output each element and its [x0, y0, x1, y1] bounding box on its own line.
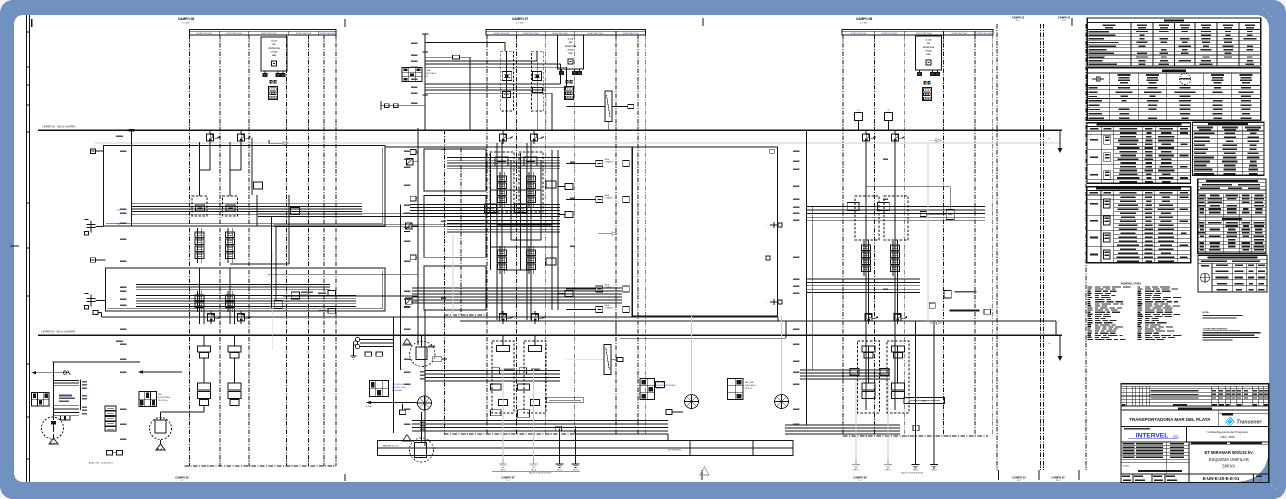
bus line y321	[460, 320, 1056, 322]
top-left margin tick	[31, 19, 33, 27]
wire	[96, 300, 106, 302]
line trap tall rect campo08/right	[0, 0, 1, 1]
aux box stack campo06 c1	[198, 383, 211, 406]
junction box campo08 bottom	[913, 425, 919, 431]
control panel U1 campo 06	[261, 37, 287, 77]
junction cluster box a	[291, 292, 313, 300]
bundle labels campo06 lower	[120, 287, 123, 301]
terminal block stack campo 07	[564, 81, 573, 100]
legend NOMENCLATURA	[1088, 282, 1182, 340]
aux box stack campo06 c2	[228, 383, 241, 406]
line trap tall rect lower	[604, 345, 611, 375]
future bus faint line	[95, 142, 1060, 144]
svg-text:+ PCyM =: + PCyM =	[567, 50, 575, 52]
dashed enclosure campo08 bot c2	[887, 341, 909, 413]
interface boxes campo07 left col	[558, 184, 573, 297]
terminal strip campo06 left	[105, 406, 116, 431]
svg-text:38V- 110Vcc: 38V- 110Vcc	[158, 400, 168, 402]
svg-text:Unidad Ejecutora del Programa: Unidad Ejecutora del Programa	[1207, 430, 1248, 434]
svg-text:503-BT1 REL.PCyM: 503-BT1 REL.PCyM	[226, 33, 242, 35]
bottom edge fold tick	[344, 474, 346, 481]
bus line y338	[620, 337, 786, 339]
footer separator tick	[1038, 470, 1040, 480]
line trap tall rect upper	[605, 91, 612, 122]
svg-text:503-BT1 REL.PCyM: 503-BT1 REL.PCyM	[916, 33, 932, 35]
svg-text:A TSA1: A TSA1	[366, 405, 372, 408]
table T6 current transformers B	[1087, 187, 1191, 263]
mimic panel campo07	[370, 381, 389, 397]
svg-text:503-BT1 REL.PCyM: 503-BT1 REL.PCyM	[882, 33, 898, 35]
breaker dashed enclosure campo08 c1	[855, 196, 879, 240]
disconnector 89-2 campo08 bus1	[891, 131, 904, 144]
gray future riser campo08	[928, 139, 942, 325]
line terminal A1	[91, 149, 96, 154]
svg-text:CAMPO 06: CAMPO 06	[175, 475, 189, 479]
svg-text:PROTECCION: PROTECCION	[565, 46, 577, 48]
interface relay box 3b	[566, 286, 629, 292]
busbar 1 end arrow	[1048, 130, 1063, 153]
campo 02 header label	[1058, 16, 1071, 22]
wire number labels campo06 left	[120, 150, 127, 440]
svg-text:503-BT1 REL.PCyM: 503-BT1 REL.PCyM	[623, 33, 639, 35]
bushing on R3 right edge lower	[766, 299, 782, 305]
svg-text:520: 520	[117, 210, 120, 212]
inter-bay wires 06-07 b	[274, 224, 560, 227]
disconnector 89-1 campo06 bus2	[207, 311, 220, 324]
wire campo07 top y90	[425, 90, 546, 130]
station transformer T1 campo06	[150, 412, 172, 440]
control panel U2 campo 07	[558, 35, 584, 75]
CT chain campo08 col2	[891, 241, 900, 276]
svg-text:CAJA: CAJA	[425, 69, 431, 72]
table T7 power transformer data	[1198, 255, 1267, 292]
box campo08 far r	[929, 291, 990, 315]
wire campo07 top y61	[425, 51, 537, 61]
wire campo07 top y57	[425, 57, 470, 130]
TSA1 kiosk grid	[32, 393, 50, 406]
svg-text:XXXX: XXXX	[922, 401, 928, 403]
svg-text:(FUT.): (FUT.)	[1062, 20, 1067, 22]
bus tie line y147	[385, 146, 632, 148]
aux box campo07 s1	[410, 149, 418, 154]
aux box pair campo08 b1	[862, 346, 875, 358]
interface relay box 1a	[596, 158, 614, 167]
svg-text:503-BT1 REL.PCyM: 503-BT1 REL.PCyM	[320, 33, 336, 35]
drop box on arrow line	[400, 404, 406, 415]
wire campo08 cross links	[866, 187, 950, 214]
wire riser x131	[131, 130, 133, 226]
disconnector 89-2 campo06 bus1	[237, 131, 250, 144]
svg-text:503-BT1 REL.PCyM: 503-BT1 REL.PCyM	[494, 33, 510, 35]
T2 ref label	[428, 346, 435, 348]
wire campo08 chain verticals	[869, 240, 898, 383]
campo 08 boundary dash-dot lines	[843, 35, 993, 436]
svg-text:S.R.L.: S.R.L.	[1173, 436, 1180, 439]
label A-reserva campo08	[949, 291, 979, 311]
footer separator tick	[701, 470, 703, 480]
aux box campo07 s2	[410, 196, 418, 201]
cable duct long rectangle	[378, 441, 793, 456]
breaker 52-1 dashed enclosure campo06	[192, 196, 207, 216]
wire bundle campo07 below	[425, 371, 560, 382]
svg-text:+ PCyM =: + PCyM =	[925, 51, 933, 53]
wire drop campo07 bot c1	[502, 335, 504, 345]
svg-text:CAMPO 08: CAMPO 08	[856, 17, 873, 21]
battery duct thin rect	[904, 397, 944, 403]
gray wire risers center	[452, 235, 454, 317]
svg-text:EN RESERVA: EN RESERVA	[668, 449, 681, 452]
wire riser campo06 low x230	[229, 268, 231, 324]
coupling capacitor CVT1	[85, 220, 96, 236]
svg-text:380/220V - 50Hz: 380/220V - 50Hz	[392, 387, 406, 389]
kiosk label campo07 top	[425, 69, 437, 78]
busbar 2 (500 kV bus II)	[38, 334, 1062, 336]
svg-text:+ PCyM =: + PCyM =	[270, 52, 278, 54]
T2 tap box	[433, 357, 447, 362]
svg-text:COMANDO: COMANDO	[605, 160, 614, 163]
mimic panel SSAA right	[728, 379, 744, 400]
bus2 connector jogs	[616, 317, 1056, 338]
feeder line campo07 top	[422, 34, 428, 130]
wires campo06 bottom	[161, 335, 235, 412]
campo 07 header band	[486, 17, 645, 35]
disconnector 89-1 campo08 bus1	[862, 131, 875, 144]
mimic panel label campo06	[158, 393, 170, 402]
box campo08 right r1	[946, 209, 954, 219]
chain campo07 col1 lower	[498, 246, 507, 274]
wire bundle campo08 below	[800, 370, 890, 379]
wire bundle campo06 lower b	[136, 296, 356, 307]
grounds campo08	[852, 459, 938, 468]
interface relay box 2b	[566, 197, 629, 203]
aux box stack campo08 c2	[880, 369, 905, 399]
wire bundle campo06 upper	[132, 204, 363, 214]
arrow line campo06	[138, 370, 182, 374]
wire riser campo08 x812	[811, 206, 813, 370]
svg-text:503-BT1 REL.PCyM: 503-BT1 REL.PCyM	[261, 33, 277, 35]
marshalling kiosk campo07 top	[402, 68, 422, 82]
CT chain campo06 col2	[226, 228, 235, 263]
footer label CAMPO 08	[853, 475, 867, 482]
busbar 1 (500 kV bus I)	[38, 129, 1062, 131]
terminal block stack campo 08	[922, 82, 931, 101]
station transformer T3 campo07 bottom	[410, 412, 434, 462]
interface relay box 4a	[596, 304, 614, 313]
arrow stub campo06	[269, 140, 288, 145]
svg-text:INTERVEL: INTERVEL	[1136, 432, 1169, 439]
label SSAA right	[745, 381, 756, 390]
svg-text:OEP - BAP: OEP - BAP	[1220, 435, 1234, 439]
table T2 symbols	[1087, 68, 1261, 120]
chain campo07 col2 lower	[527, 246, 536, 274]
delta symbol campo07 lower	[700, 467, 709, 475]
svg-text:ESQUEMA UNIFILAR: ESQUEMA UNIFILAR	[1209, 457, 1249, 462]
wire riser campo06 x199	[199, 142, 201, 196]
svg-text:U.C.B: U.C.B	[568, 39, 574, 41]
mimic panel label campo07	[392, 383, 407, 392]
svg-text:U.C.B: U.C.B	[926, 40, 932, 42]
svg-text:NOMENCLATURA: NOMENCLATURA	[1121, 282, 1142, 285]
svg-text:ESQUEMA 1: ESQUEMA 1	[392, 389, 402, 392]
table T1 equipment characteristics	[1087, 18, 1261, 66]
G1 feeder	[666, 316, 692, 415]
disconnector campo08 bus2 a	[865, 311, 878, 324]
campo 02 boundary dash-dot lines	[1044, 24, 1087, 470]
feeder line campo07 lower	[424, 310, 426, 446]
gray future wires campo07	[503, 369, 534, 459]
interface relay box 3a	[596, 284, 614, 293]
junction cluster box c	[318, 291, 336, 296]
wire campo07 top y84	[425, 64, 560, 84]
disconnector 89-1 campo07 bus1	[499, 131, 512, 144]
busbar 2 end arrow	[1048, 335, 1063, 361]
svg-text:A.CENT.SSAA: A.CENT.SSAA	[158, 396, 170, 399]
box campo08 right r2	[920, 211, 926, 216]
svg-text:50/62: 50/62	[568, 53, 572, 55]
svg-text:CAMPO 08: CAMPO 08	[853, 475, 867, 479]
svg-text:COMANDO: COMANDO	[605, 196, 614, 199]
svg-text:380/220V: 380/220V	[745, 388, 753, 390]
campo 03 boundary dash-dot lines	[997, 24, 1041, 470]
G2 feeder	[781, 316, 783, 395]
wire riser campo08 x806	[806, 131, 808, 425]
footer separator tick	[1078, 470, 1080, 480]
svg-text:TAB. SSAA: TAB. SSAA	[745, 381, 754, 384]
svg-text:CAMPO 07: CAMPO 07	[512, 17, 529, 21]
terminal block stack campo 06	[268, 81, 277, 100]
footer label CAMPO 06	[175, 475, 189, 482]
wire riser campo06 x230	[229, 142, 231, 196]
svg-text:COMANDO: COMANDO	[605, 306, 614, 309]
pre-bus box campo08 a	[855, 110, 863, 130]
mimic panel campo06	[139, 392, 157, 407]
footer label CAMPO 07	[501, 475, 515, 482]
svg-text:NOTAS:: NOTAS:	[1123, 464, 1130, 467]
box campo07 mid r4	[546, 258, 556, 265]
wire drop campo07 top c1	[506, 51, 508, 130]
svg-text:(FUT.): (FUT.)	[1016, 20, 1021, 22]
wire	[96, 259, 106, 261]
svg-text:a c/: a c/	[1048, 138, 1051, 140]
wire bundle campo07 low	[412, 288, 622, 303]
breaker dashed enclosure campo07 c1	[490, 152, 514, 212]
TSA1 bracket labels	[81, 379, 88, 414]
wire campo07 top y42	[425, 43, 505, 52]
wire campo07 top y87	[425, 67, 566, 87]
breaker 52-2 dashed enclosure campo06	[222, 196, 237, 216]
ground stems campo08	[916, 425, 935, 459]
aux box pair campo07 b1	[492, 346, 513, 374]
svg-text:NOTA:: NOTA:	[1202, 311, 1209, 314]
wire bundle campo08 mid1	[807, 206, 985, 220]
footer label CAMPO 03	[1012, 475, 1026, 482]
svg-text:TRANSPORTADORA MAR DEL PLATA: TRANSPORTADORA MAR DEL PLATA	[1129, 417, 1211, 422]
svg-text:CAMPO 03: CAMPO 03	[1012, 475, 1026, 479]
svg-text:5B2: 5B2	[117, 224, 120, 226]
breaker dashed enclosure campo07 c2	[519, 152, 543, 212]
svg-text:503-BT1 REL.PCyM: 503-BT1 REL.PCyM	[587, 33, 603, 35]
breaker box campo07 c1	[495, 157, 508, 166]
wire drop campo07 bot c2	[534, 335, 536, 345]
delta winding symbol T1	[156, 440, 165, 451]
wire bundle campo08 bottom	[785, 425, 900, 434]
chain campo06 col2 lower	[226, 291, 235, 312]
wire link panel to trap	[567, 106, 609, 130]
svg-text:503: 503	[569, 42, 572, 44]
battery rect campo07	[547, 398, 584, 403]
box campo07 mid r3	[546, 181, 556, 188]
mimic panel SSAA left	[640, 379, 655, 400]
svg-text:TAB. SSAA: TAB. SSAA	[656, 381, 665, 384]
junction cluster box b	[274, 301, 282, 309]
tap box at y317 left	[93, 311, 102, 317]
svg-text:E-UN-E-20-E-E-01: E-UN-E-20-E-E-01	[1203, 476, 1240, 481]
svg-text:500 kV: 500 kV	[1222, 464, 1235, 469]
box campo08 r1	[847, 202, 859, 210]
svg-text:E.T. MDP: E.T. MDP	[182, 22, 190, 24]
svg-text:E.T. MDP: E.T. MDP	[860, 22, 868, 24]
gray link to trap lower	[566, 357, 623, 361]
svg-text:503-BT1 REL.PCyM: 503-BT1 REL.PCyM	[851, 33, 867, 35]
kiosk rect K1 campo07	[424, 149, 486, 191]
CT chain campo08 col1	[862, 241, 871, 276]
ground labels campo07	[501, 469, 578, 475]
table T3 current transformers A	[1087, 123, 1191, 184]
svg-text:50/62: 50/62	[926, 54, 930, 56]
svg-text:ESENCIALES: ESENCIALES	[745, 384, 756, 387]
wire riser campo07 x531	[530, 142, 532, 320]
wire riser campo06 low x199	[199, 268, 201, 324]
aux box pair campo06 b2	[228, 346, 241, 358]
TSA1 group main riser	[53, 362, 141, 420]
junction box on R3 top edge	[770, 149, 775, 153]
component tag labels middle	[441, 148, 888, 299]
TSA1 wire bundle lower	[54, 406, 79, 416]
node tee at bus1	[129, 129, 135, 131]
CT chain campo07 col2	[527, 172, 536, 207]
arrow line campo07	[366, 401, 418, 408]
svg-text:503: 503	[273, 44, 276, 46]
kiosk rect K2 campo07	[424, 196, 486, 258]
table T5 voltage transformers	[1198, 179, 1266, 253]
box campo07 mid r2	[515, 204, 527, 213]
wire bundle campo07 mid1	[447, 158, 560, 169]
kiosk rect K3 campo07	[424, 266, 486, 310]
wire link trap to box	[612, 105, 634, 109]
campo 06 header band	[178, 17, 336, 35]
campo 03 header label	[1012, 16, 1025, 22]
wire riser campo08 x934	[933, 321, 935, 425]
box campo07 mid r1	[485, 204, 497, 213]
svg-text:S2: S2	[887, 110, 889, 112]
wire campo07 top y93	[425, 93, 552, 130]
coupling capacitor CVT2	[85, 294, 96, 310]
sheet left margin ruler	[26, 15, 29, 482]
wire bundle campo07 bottom	[412, 421, 668, 432]
aux box stack campo08 c1	[850, 369, 875, 399]
wire drop campo07 top c2	[536, 51, 538, 130]
aux contact column campo07	[417, 128, 419, 345]
svg-text:CAMPO 03: CAMPO 03	[1012, 16, 1025, 19]
svg-text:S1: S1	[857, 110, 859, 112]
CT stack campo07 top c1	[502, 71, 512, 80]
wire bundle campo07 mid1b	[447, 221, 560, 233]
station transformer TSA1	[42, 417, 64, 439]
relay box below R3	[656, 382, 665, 388]
ground labels campo08	[854, 469, 937, 475]
TSA1 box pair	[60, 416, 70, 420]
wire riser campo08 x866	[865, 142, 867, 410]
disconnector campo08 bus2 b	[894, 311, 907, 324]
wire campo07 top y67	[425, 66, 566, 68]
junction cluster box d	[318, 308, 336, 313]
junction box on R3 right mid	[766, 256, 770, 260]
wire web campo07 mid	[491, 143, 559, 320]
top edge fold tick c	[1071, 18, 1073, 26]
disconnector 89-2 campo06 bus2	[237, 311, 250, 324]
wire campo06 disconnector tails	[200, 142, 242, 196]
footer label CAMPO 02	[1051, 475, 1065, 482]
control panel U3 campo 08	[916, 36, 942, 76]
bushing on R3 right edge upper	[766, 222, 782, 228]
svg-text:ET MIRAMAR 500/132 kV: ET MIRAMAR 500/132 kV	[1205, 450, 1254, 455]
svg-text:CAMPO 02: CAMPO 02	[1058, 16, 1071, 19]
disconnector 89-2 campo07 bus1	[530, 131, 543, 144]
CT stack campo07 top c2	[533, 71, 542, 80]
footer separator tick	[998, 470, 1000, 480]
interface relay box 1b	[566, 161, 629, 167]
pre-bus box campo08 b	[885, 110, 893, 130]
svg-text:U.C.B: U.C.B	[271, 41, 277, 43]
interface relay box 4b	[566, 307, 629, 313]
dashed enclosure campo08 bot c1	[858, 341, 880, 413]
dashed enclosure campo07 bot c2	[524, 341, 546, 413]
feeder tail campo07	[351, 337, 395, 359]
wire bundle campo07 mid2	[410, 205, 560, 214]
aux box stack campo07 c2	[518, 384, 540, 417]
delta winding TSA1	[49, 434, 58, 445]
svg-text:503: 503	[425, 76, 428, 78]
station transformer T2 campo07	[410, 335, 435, 366]
inter-bay wires 06-07 a	[258, 214, 560, 217]
campo 07 boundary dash-dot lines	[444, 35, 645, 434]
junction cluster 06-07 wires	[268, 216, 418, 308]
top edge fold tick	[344, 19, 346, 27]
CT chain campo06 col1	[195, 228, 204, 263]
wire campo07 top y64	[425, 63, 560, 65]
wire riser campo07 x400	[400, 205, 402, 371]
transformer fan symbol campo07	[418, 396, 432, 410]
svg-text:503-BT1 REL.PCyM: 503-BT1 REL.PCyM	[523, 33, 539, 35]
CT chain campo07 col1	[498, 172, 507, 207]
svg-text:503-BT1 REL.PCyM: 503-BT1 REL.PCyM	[197, 33, 213, 35]
aux box stack campo07 c1	[491, 384, 508, 416]
line terminal A2	[91, 258, 96, 263]
TSA1 inline switch	[32, 371, 71, 375]
disconnector campo07 bus2 b	[531, 311, 544, 324]
ground bracket line campo07	[492, 470, 580, 472]
campo 08 header band	[842, 17, 993, 35]
junction box campo06 right	[254, 182, 300, 215]
breaker box campo07 top c1	[502, 92, 510, 98]
aux box campo07 s3	[410, 255, 418, 260]
bus line y317	[102, 316, 778, 318]
table T4 surge arresters	[1193, 122, 1265, 175]
dashed enclosure campo07 bot c1	[492, 341, 514, 413]
svg-text:BARRAS 13,2 kV: BARRAS 13,2 kV	[383, 444, 399, 447]
dashed enclosure campo07 top c1	[501, 51, 514, 111]
svg-text:PROTECCION: PROTECCION	[923, 47, 935, 49]
